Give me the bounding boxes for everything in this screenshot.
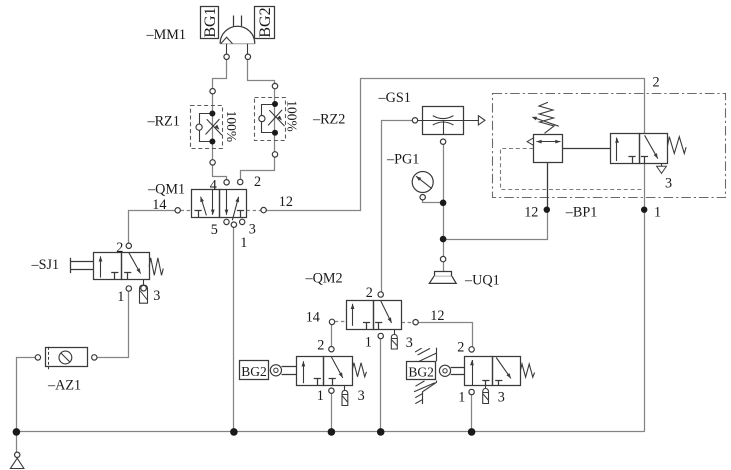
port RZ1 top bbox=[210, 89, 215, 94]
svg-text:3: 3 bbox=[406, 335, 413, 351]
svg-text:–UQ1: –UQ1 bbox=[464, 272, 500, 288]
svg-text:1: 1 bbox=[317, 388, 324, 404]
pressure sensor element BP1 bbox=[527, 135, 562, 163]
svg-text:–RZ1: –RZ1 bbox=[147, 114, 180, 130]
svg-text:100%: 100% bbox=[285, 100, 300, 132]
silencer SJ1 port 3 bbox=[140, 285, 148, 303]
port label 1 QM1 bbox=[240, 235, 247, 251]
pilot port QM2 14 bbox=[329, 319, 334, 324]
silencer BG2 right port 3 bbox=[483, 389, 489, 404]
wire BG2 left valve port 1 to bottom rail bbox=[331, 393, 333, 432]
port GS1 inlet bbox=[412, 118, 417, 123]
svg-text:2: 2 bbox=[366, 285, 373, 301]
port label 1 QM2 bbox=[365, 335, 372, 351]
svg-text:14: 14 bbox=[306, 310, 320, 326]
port label 2 BP1 bbox=[653, 75, 660, 91]
port marker BP1 12 bbox=[544, 207, 550, 213]
pilot label 14 QM1 bbox=[152, 197, 166, 213]
svg-text:3: 3 bbox=[358, 388, 365, 404]
port SJ1 1 bbox=[126, 286, 131, 291]
wire UQ1 stub below port bbox=[443, 262, 445, 272]
svg-text:–QM2: –QM2 bbox=[305, 270, 343, 286]
port RZ2 bottom bbox=[272, 152, 277, 157]
label -UQ1 bbox=[464, 272, 500, 288]
wire QM1 pilot 14 to SJ1 port 2 bbox=[129, 211, 175, 244]
svg-text:100%: 100% bbox=[224, 111, 239, 143]
port QM1 1 bbox=[231, 222, 236, 227]
port label 12 BP1 bbox=[524, 205, 538, 221]
svg-text:–QM1: –QM1 bbox=[147, 181, 185, 197]
svg-text:BG1: BG1 bbox=[202, 7, 219, 37]
pilot port QM1 14 bbox=[175, 208, 180, 213]
wire QM1 pilot 12 dashed stub bbox=[247, 210, 261, 212]
label -AZ1 bbox=[47, 377, 81, 393]
port MM1 left bbox=[224, 54, 229, 59]
silencer BG2 left port 3 bbox=[342, 390, 348, 405]
svg-text:BG2: BG2 bbox=[241, 364, 267, 379]
port label 3 BG2 left bbox=[358, 388, 365, 404]
svg-text:BG2: BG2 bbox=[408, 365, 434, 380]
vacuum generator GS1 bbox=[418, 107, 485, 135]
wire GS1 vacuum line down to UQ1 bbox=[443, 144, 445, 256]
svg-text:4: 4 bbox=[210, 178, 217, 194]
wire SJ1 port 1 to AZ1 outlet bbox=[97, 291, 128, 357]
label -SJ1 bbox=[31, 257, 60, 273]
port UQ1 bbox=[440, 256, 445, 261]
junction BG2 right line at rail bbox=[468, 428, 476, 436]
two-pressure module MM1 bbox=[220, 16, 255, 55]
wire QM1 port 1 to bottom rail bbox=[233, 227, 235, 432]
roller actuator BG2 left bbox=[270, 365, 296, 376]
junction PG1 branch bbox=[440, 200, 447, 207]
port BG2 left 1 bbox=[329, 388, 334, 393]
shut-off valve AZ1 bbox=[46, 347, 88, 369]
flow control valve RZ1 bbox=[191, 92, 223, 163]
junction supply rail left bbox=[13, 428, 21, 436]
svg-text:2: 2 bbox=[116, 240, 123, 256]
wire QM1 pilot 14 dashed stub bbox=[181, 210, 192, 212]
wire BP1 port 1 to bottom rail bbox=[644, 163, 646, 432]
port SJ1 3 bbox=[141, 285, 147, 291]
port label 2 QM1 bbox=[254, 174, 261, 190]
port PG1 bbox=[420, 195, 425, 200]
port label 5 bbox=[211, 222, 218, 238]
port label 3 QM2 bbox=[406, 335, 413, 351]
wire QM2 pilot 12 to BG2 right valve port 2 bbox=[418, 323, 472, 347]
label -GS1 bbox=[378, 90, 411, 106]
port label 2 SJ1 bbox=[116, 240, 123, 256]
pilot port QM1 12 bbox=[261, 207, 266, 212]
label -QM1 bbox=[147, 181, 185, 197]
value label 100% RZ1 bbox=[224, 111, 239, 143]
wire bottom supply rail bbox=[16, 431, 644, 433]
roller actuator BG2 right bbox=[439, 365, 464, 376]
svg-text:2: 2 bbox=[317, 338, 324, 354]
svg-text:–GS1: –GS1 bbox=[378, 90, 411, 106]
svg-text:–RZ2: –RZ2 bbox=[312, 112, 345, 128]
svg-text:–BP1: –BP1 bbox=[565, 205, 598, 221]
pilot port QM2 12 bbox=[413, 320, 418, 325]
sensor tag BG2 left bbox=[240, 361, 269, 380]
port QM1 4 bbox=[224, 180, 229, 185]
port label 1 BG2 left bbox=[317, 388, 324, 404]
wire supply source stub bbox=[16, 435, 18, 453]
svg-text:2: 2 bbox=[457, 340, 464, 356]
port label 2 BG2 right bbox=[457, 340, 464, 356]
valve BG2 left 3/2 roller body bbox=[297, 357, 367, 391]
port BG2 right 2 bbox=[469, 347, 474, 352]
valve QM2 3/2 body bbox=[347, 301, 402, 335]
svg-text:BG2: BG2 bbox=[257, 7, 274, 37]
junction BP1 branch bbox=[440, 236, 447, 243]
port label 2 BG2 left bbox=[317, 338, 324, 354]
svg-text:1: 1 bbox=[458, 390, 465, 406]
cam flag BG2 right bbox=[414, 348, 437, 404]
wire QM2 port 1 to bottom rail bbox=[380, 339, 382, 432]
port BG2 left 2 bbox=[329, 347, 334, 352]
svg-text:14: 14 bbox=[152, 197, 166, 213]
port QM1 2 bbox=[238, 179, 243, 184]
valve BG2 right 3/2 roller body bbox=[465, 357, 535, 389]
port MM1 right bbox=[245, 54, 250, 59]
label -QM2 bbox=[305, 270, 343, 286]
wire MM1 right output to RZ2 inlet bbox=[248, 60, 275, 84]
port QM2 2 bbox=[378, 292, 383, 297]
wire GS1 inlet from QM2 port 2 bbox=[382, 121, 413, 292]
port label 1 BG2 right bbox=[458, 390, 465, 406]
pilot label 12 QM2 bbox=[430, 308, 444, 324]
port RZ1 bottom bbox=[210, 160, 215, 165]
junction BG2 left line at rail bbox=[328, 428, 336, 436]
svg-text:2: 2 bbox=[653, 75, 660, 91]
port label 1 BP1 bbox=[654, 205, 661, 221]
port label 1 SJ1 bbox=[117, 289, 124, 305]
pilot label 14 QM2 bbox=[306, 310, 320, 326]
port SJ1 2 bbox=[126, 243, 131, 248]
port GS1 vacuum bbox=[440, 139, 445, 144]
junction QM1 line at rail bbox=[230, 428, 238, 436]
value label 100% RZ2 bbox=[285, 100, 300, 132]
svg-text:12: 12 bbox=[524, 205, 538, 221]
pilot sensing dashed line BP1 bbox=[501, 149, 645, 190]
svg-text:2: 2 bbox=[254, 174, 261, 190]
svg-text:1: 1 bbox=[654, 205, 661, 221]
wire vacuum line branch to BP1 port 12 bbox=[443, 163, 547, 240]
connection line BP1 output bbox=[547, 162, 549, 210]
wire QM2 pilot 14 dashed stub bbox=[335, 321, 346, 323]
port QM1 5 bbox=[224, 219, 229, 224]
svg-text:1: 1 bbox=[117, 289, 124, 305]
wire QM2 pilot 12 dashed stub bbox=[402, 322, 413, 324]
wire MM1 left output to RZ1 inlet bbox=[213, 60, 227, 89]
label -BP1 bbox=[565, 205, 598, 221]
pilot label 12 QM1 bbox=[279, 194, 293, 210]
sensor tag BG2 right bbox=[407, 362, 436, 380]
sensor tag BG1 bbox=[201, 7, 219, 39]
svg-text:1: 1 bbox=[365, 335, 372, 351]
svg-text:–MM1: –MM1 bbox=[146, 27, 186, 43]
svg-text:–PG1: –PG1 bbox=[386, 151, 419, 167]
svg-text:–AZ1: –AZ1 bbox=[47, 377, 81, 393]
enclosure frame BP1 dash-dot bbox=[493, 94, 726, 198]
adjustable spring BP1 bbox=[532, 102, 559, 133]
valve SJ1 3/2 push-button bbox=[70, 253, 163, 286]
label -MM1 bbox=[146, 27, 186, 43]
port label 3 QM1 bbox=[249, 222, 256, 238]
wire RZ2 outlet to QM1 port 2 bbox=[241, 157, 275, 179]
svg-text:3: 3 bbox=[153, 288, 160, 304]
silencer QM2 port 3 bbox=[391, 335, 397, 350]
junction QM2 line at rail bbox=[377, 428, 385, 436]
port label 3 BG2 right bbox=[498, 390, 505, 406]
port marker BP1 1 bbox=[641, 207, 647, 213]
valve QM1 5/2 body bbox=[192, 190, 247, 221]
port label 2 QM2 bbox=[366, 285, 373, 301]
svg-text:12: 12 bbox=[430, 308, 444, 324]
suction cup UQ1 bbox=[429, 272, 456, 284]
port AZ1 right bbox=[92, 355, 97, 360]
wire AZ1 inlet to supply rail bbox=[17, 358, 36, 432]
wire QM1 pilot 12 to BP1 port 2 bbox=[266, 79, 644, 211]
port QM2 1 bbox=[378, 333, 383, 338]
sensor tag BG2 top bbox=[255, 7, 275, 39]
pilot link line BP1 bbox=[563, 148, 611, 150]
port label 3 BP1 bbox=[665, 176, 672, 192]
valve BP1 3/2 body bbox=[611, 134, 687, 174]
wire BG2 right valve port 1 to bottom rail bbox=[471, 395, 473, 432]
wire PG1 stub to vacuum line bbox=[423, 200, 442, 203]
compressed air supply source bbox=[10, 452, 24, 468]
svg-text:3: 3 bbox=[665, 176, 672, 192]
port BG2 right 1 bbox=[469, 389, 474, 394]
pressure gauge PG1 bbox=[412, 172, 433, 193]
label -RZ1 bbox=[147, 114, 180, 130]
svg-text:3: 3 bbox=[498, 390, 505, 406]
port AZ1 left bbox=[35, 355, 40, 360]
wire RZ1 outlet to QM1 port 4 bbox=[213, 165, 227, 179]
svg-text:12: 12 bbox=[279, 194, 293, 210]
wire BG2 left valve port 2 to QM2 pilot 14 bbox=[331, 324, 333, 346]
svg-text:–SJ1: –SJ1 bbox=[31, 257, 60, 273]
label -RZ2 bbox=[312, 112, 345, 128]
port RZ2 top bbox=[272, 83, 277, 88]
flow control valve RZ2 bbox=[255, 82, 286, 154]
port QM1 3 bbox=[240, 219, 245, 224]
label -PG1 bbox=[386, 151, 419, 167]
svg-text:3: 3 bbox=[249, 222, 256, 238]
port label 3 SJ1 bbox=[153, 288, 160, 304]
port label 4 bbox=[210, 178, 217, 194]
svg-text:1: 1 bbox=[240, 235, 247, 251]
svg-text:5: 5 bbox=[211, 222, 218, 238]
